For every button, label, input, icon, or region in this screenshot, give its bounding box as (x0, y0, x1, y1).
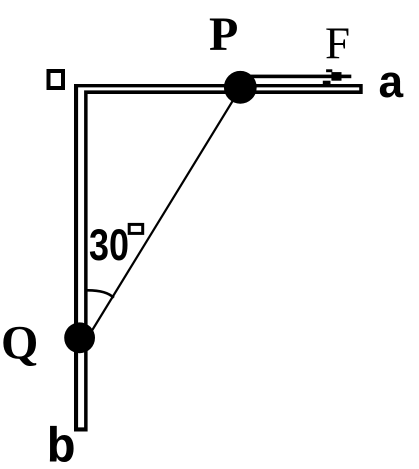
diagonal string PQ (82, 87, 241, 347)
label o (49, 71, 64, 88)
svg-text:b: b (47, 420, 76, 469)
degree mark (129, 224, 143, 233)
arrowhead (pixel blocks) (326, 69, 332, 72)
angle arc at Q (87, 290, 114, 298)
ring Q (bead) (64, 322, 95, 353)
svg-text:30: 30 (89, 221, 129, 270)
svg-text:P: P (209, 8, 238, 61)
svg-text:Q: Q (1, 317, 38, 370)
ring P (bead) (224, 71, 257, 104)
svg-text:a: a (378, 60, 405, 111)
svg-text:F: F (325, 19, 350, 69)
rail oa-ob L-shaped double line (black band) (74, 84, 363, 432)
rail inner white channel (78, 87, 359, 427)
force arrow line F (243, 75, 351, 79)
